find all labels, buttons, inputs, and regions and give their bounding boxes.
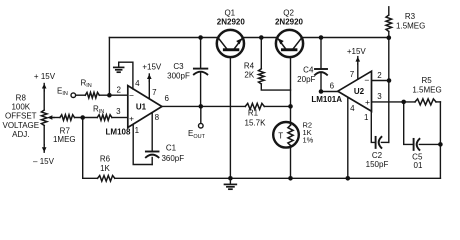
svg-text:1: 1 (135, 126, 140, 135)
ground (main rail) (229, 178, 231, 184)
U1 pin 1 lead (133, 125, 152, 165)
svg-text:LM101A: LM101A (311, 95, 342, 104)
wire R5 right end down to ground rail (439, 102, 441, 178)
svg-text:– 15V: – 15V (33, 157, 55, 166)
svg-text:R4: R4 (244, 61, 255, 70)
svg-text:Q2: Q2 (283, 8, 294, 17)
resistor R1 15.7K (245, 103, 264, 109)
capacitor C1 360pF (146, 151, 159, 153)
node junction: R5 / C5 branch (401, 100, 406, 105)
wire C5 left branch from R5 node (404, 102, 414, 144)
svg-text:2: 2 (377, 71, 382, 80)
resistor R_IN (lower, to pin 3) (97, 115, 112, 121)
svg-text:1.5MEG: 1.5MEG (396, 22, 425, 31)
-15V supply arrow at R8 bottom (43, 145, 45, 153)
U1 pin 8 lead (151, 113, 153, 152)
node E_IN input terminal (71, 93, 76, 98)
svg-text:R8: R8 (16, 94, 27, 103)
wire E_OUT stub (200, 106, 202, 123)
capacitor C2 150pF (375, 137, 377, 148)
U1 pin 7 +15V arrow (148, 81, 150, 99)
ground (U1 pin 4) (114, 66, 124, 68)
resistor R7 1MEG (60, 115, 75, 121)
U2 pin 7 +15V arrow (357, 64, 359, 80)
node E_OUT terminal (199, 123, 204, 128)
wire Q1 base lead down to ground rail (229, 55, 231, 178)
svg-text:01: 01 (414, 161, 423, 170)
svg-text:+15V: +15V (347, 47, 367, 56)
wire C3 branch from top rail down to U1 output row (200, 38, 202, 69)
wire U1 non-inverting input row (wiper to pin 3) (54, 117, 60, 119)
svg-text:2N2920: 2N2920 (217, 18, 246, 27)
svg-text:2N2920: 2N2920 (275, 18, 304, 27)
svg-text:U1: U1 (136, 103, 147, 112)
svg-text:OFFSET: OFFSET (5, 112, 37, 121)
transistor Q1 2N2920 (217, 30, 244, 57)
wire U1 inverting input row (E_IN to pin 2) (76, 94, 86, 96)
svg-text:360pF: 360pF (161, 154, 184, 163)
capacitor C3 300pF (198, 35, 203, 40)
svg-text:1: 1 (364, 113, 369, 122)
svg-text:+15V: +15V (142, 62, 162, 71)
resistor R6 1K (98, 176, 115, 182)
op-amp U2 LM101A triangle (mirrored) (338, 71, 372, 111)
node U1 output / E_OUT junction (199, 104, 204, 109)
svg-text:2: 2 (116, 85, 121, 94)
svg-text:+: + (129, 114, 134, 124)
node junction: R3 / top rail (387, 35, 392, 40)
svg-text:R5: R5 (421, 76, 432, 85)
svg-text:1.5MEG: 1.5MEG (412, 86, 441, 95)
svg-text:RIN: RIN (93, 105, 104, 116)
svg-text:VOLTAGE: VOLTAGE (2, 121, 39, 130)
svg-text:1MEG: 1MEG (53, 135, 76, 144)
node junction: C4 / U2 output (319, 89, 324, 94)
svg-text:2K: 2K (244, 71, 254, 80)
svg-text:R7: R7 (60, 126, 71, 135)
wire R4 bottom elbow to Q2 base line (261, 84, 290, 90)
node junction: pin2 / R3 vertical (387, 78, 392, 83)
svg-text:+ 15V: + 15V (34, 72, 56, 81)
svg-text:6: 6 (330, 81, 335, 90)
op-amp U1 LM108 triangle (128, 86, 162, 128)
wire C5 right lead (419, 143, 440, 145)
wire riser from U1 pin2 node up to top rail (108, 38, 110, 96)
svg-text:1%: 1% (303, 136, 314, 145)
U1 pin 4 lead to ground (119, 62, 133, 89)
resistor R3 1.5MEG (386, 15, 392, 32)
svg-text:T: T (278, 131, 283, 140)
svg-text:7: 7 (152, 88, 157, 97)
svg-text:C3: C3 (173, 62, 184, 71)
wire C4 branch from top rail down to U2 output (320, 38, 322, 70)
wire U2 pin 2 stub to R3/C2 vertical (372, 80, 390, 82)
wire top feedback rail from U1 pin2 riser to R3 node (109, 37, 388, 39)
node junction: R1 / Q2 base / sensor R2 (288, 104, 293, 109)
svg-text:20pF: 20pF (297, 75, 315, 84)
transistor Q2 2N2920 (276, 30, 303, 57)
svg-text:4: 4 (135, 79, 140, 88)
svg-text:8: 8 (155, 113, 160, 122)
svg-text:4: 4 (350, 104, 355, 113)
svg-text:3: 3 (377, 92, 382, 101)
svg-text:+: + (365, 97, 370, 107)
svg-text:U2: U2 (354, 87, 365, 96)
+15V supply arrow at R8 top (43, 84, 45, 92)
wire U1 output row to R1 and Q2 base node (162, 105, 245, 107)
node junction: Q1/Q2 emitters and R4 (259, 35, 264, 40)
wire U2 output (pin 6) row (321, 91, 338, 93)
capacitor C5 .01 (413, 139, 415, 150)
svg-text:7: 7 (350, 70, 355, 79)
svg-text:ADJ.: ADJ. (12, 130, 29, 139)
node junction: feedback meets inverting input (107, 93, 112, 98)
resistor R5 1.5MEG (415, 99, 436, 105)
svg-text:C2: C2 (372, 151, 383, 160)
node junction: ground rail / U2 pin 4 (346, 176, 351, 181)
svg-text:15.7K: 15.7K (245, 119, 267, 128)
R8 wiper arrow (51, 117, 55, 119)
svg-text:100K: 100K (11, 103, 30, 112)
wire C2 right lead (381, 141, 388, 143)
svg-text:R6: R6 (100, 155, 111, 164)
svg-text:R3: R3 (405, 12, 416, 21)
svg-text:300pF: 300pF (167, 71, 190, 80)
wire U2 pin 1 lead down to C2 (371, 111, 375, 142)
node junction: ground rail / Q1 base (228, 176, 233, 181)
node junction: C5 / right riser (438, 142, 443, 147)
wire U2 pin 3 row to R5 (372, 101, 416, 103)
wire R3 top stub (388, 7, 390, 15)
capacitor C4 20pF (315, 68, 327, 70)
resistor R4 2K (260, 38, 262, 69)
potentiometer R8 element (41, 110, 47, 126)
svg-text:1K: 1K (100, 164, 110, 173)
svg-text:6: 6 (164, 94, 169, 103)
svg-text:LM108: LM108 (106, 128, 131, 137)
sensor R2 1K 1% with temperature circle (273, 122, 299, 148)
svg-text:150pF: 150pF (366, 160, 389, 169)
svg-text:R1: R1 (248, 109, 259, 118)
wire Q2 base lead down through R2 to ground rail (290, 55, 292, 178)
resistor R_IN (upper, to pin 2) (85, 92, 99, 98)
node junction: ground rail / sensor (288, 176, 293, 181)
svg-text:Q1: Q1 (224, 8, 235, 17)
svg-text:EOUT: EOUT (188, 129, 206, 140)
wire U2 pin 4 lead down to ground rail (347, 97, 349, 178)
wire bottom ground rail from R6 corner to right feedback corner (83, 177, 98, 179)
node junction: top rail / C4 (319, 35, 324, 40)
svg-text:−: − (364, 75, 369, 85)
svg-text:RIN: RIN (81, 78, 92, 89)
svg-text:3: 3 (116, 107, 121, 116)
svg-text:C1: C1 (166, 143, 177, 152)
svg-text:EIN: EIN (57, 87, 68, 98)
svg-text:−: − (129, 90, 134, 100)
wire R3/pin2/C2 vertical (388, 32, 390, 143)
svg-text:C4: C4 (303, 65, 314, 74)
node junction: R7 / R_IN / R6 (80, 115, 85, 120)
wire riser from pin3 node down to R6 row (82, 118, 84, 179)
